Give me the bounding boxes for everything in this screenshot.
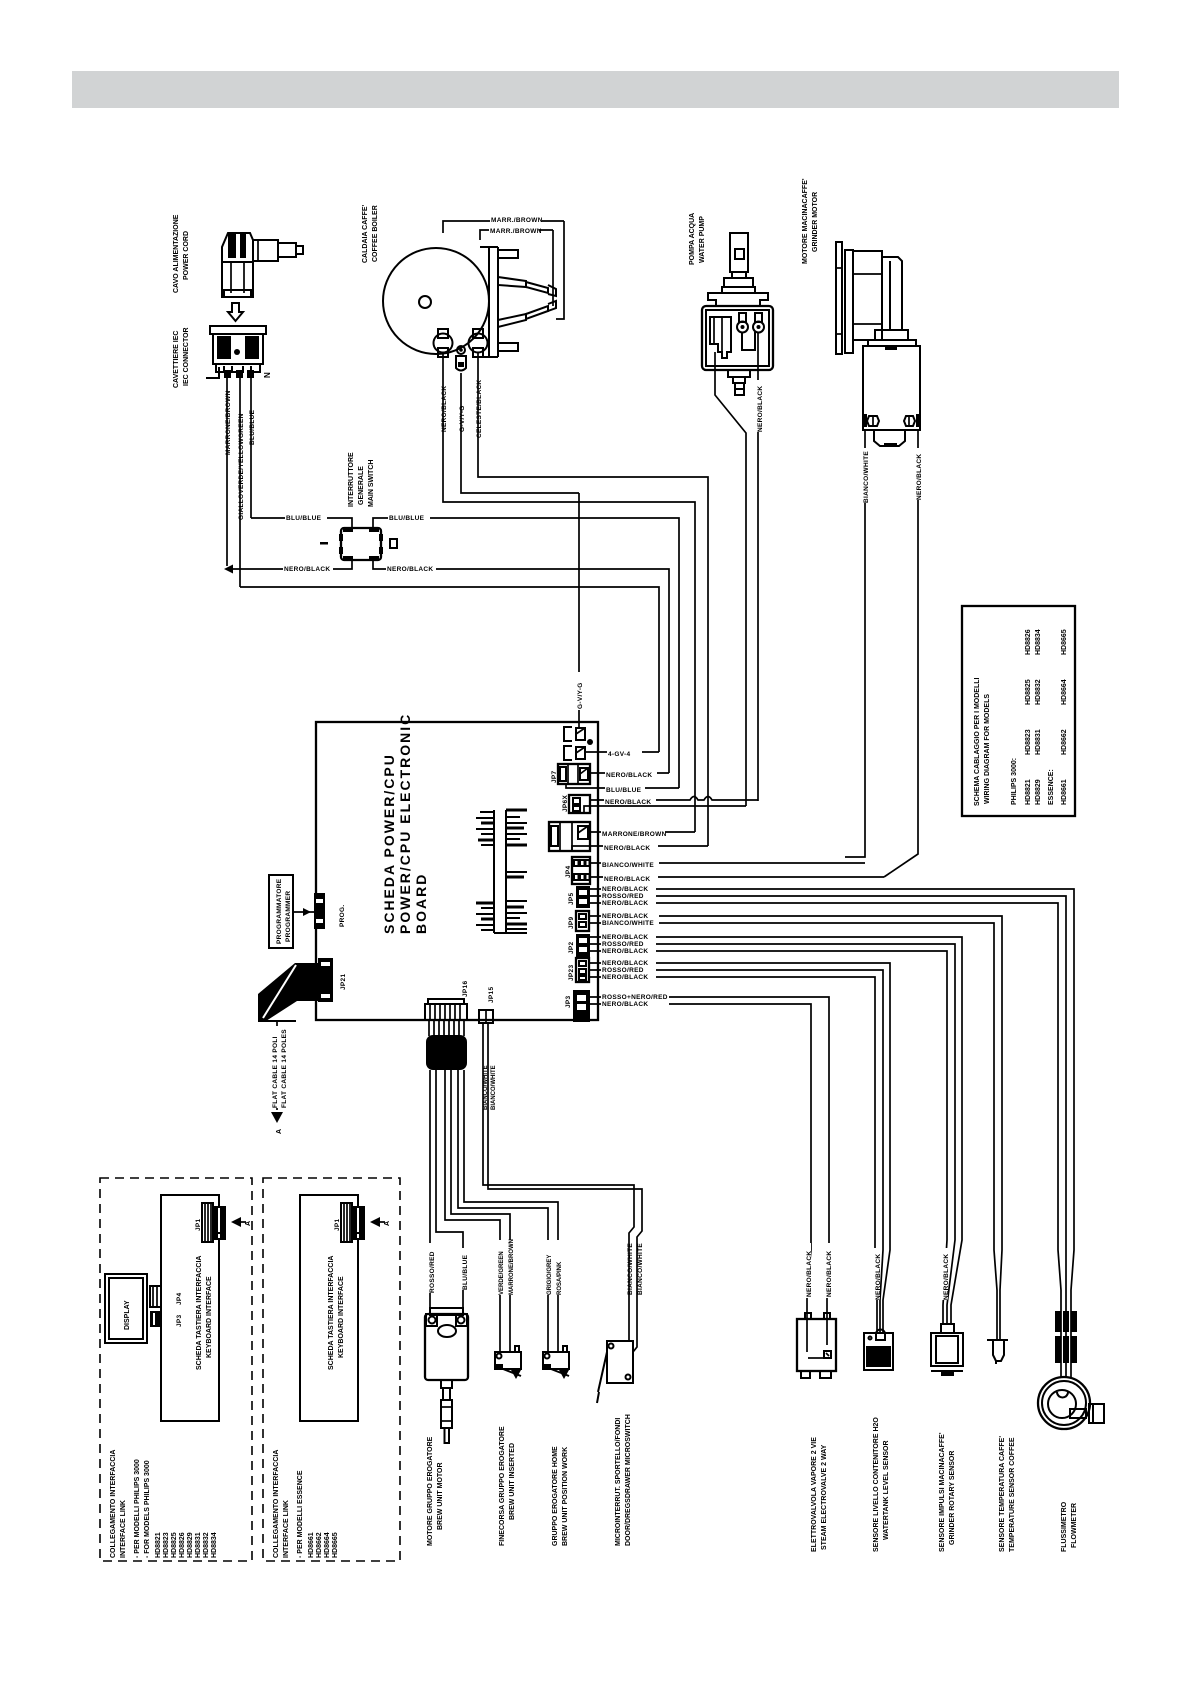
flowmeter wire label block 1 [1055,1311,1077,1332]
labels JP9 wires [601,911,659,929]
wire JP2b-2 [590,944,955,1324]
water level sensor B1 [864,1330,893,1371]
wire JP5-2 [590,896,1066,1378]
wire JP3-2 [590,1004,811,1319]
label MARR/BROWN top1 [490,214,542,222]
svg-text:BREW UNIT MOTOR: BREW UNIT MOTOR [437,1462,444,1530]
boiler small circle detail [419,296,431,308]
svg-text:GENERALE: GENERALE [358,466,365,505]
svg-text:NERO/BLACK: NERO/BLACK [284,566,330,573]
svg-text:DISPLAY: DISPLAY [124,1300,131,1330]
svg-text:BLU/BLUE: BLU/BLUE [462,1254,469,1290]
JP16 wire red to motor [429,1070,431,1314]
label G-V/Y-G vertical [572,672,580,710]
arrow junction [224,565,233,574]
wire boiler top 1 [443,221,564,233]
boiler mounting plate [480,247,518,357]
svg-text:NERO/BLACK: NERO/BLACK [602,886,648,893]
display connector JP4 [150,1311,161,1327]
dashed box Essence interface [263,1178,400,1561]
steam electrovalve EV1 [797,1313,836,1378]
svg-text:BIANCO/WHITE: BIANCO/WHITE [602,920,654,927]
wire programmer to PCB [293,911,316,913]
svg-text:MARRONE/BROWN: MARRONE/BROWN [225,390,232,455]
wire JP9-1 [590,916,1002,1339]
svg-text:NERO/BLACK: NERO/BLACK [806,1251,813,1297]
svg-text:MAIN SWITCH: MAIN SWITCH [368,460,375,507]
svg-text:HD8831: HD8831 [1035,729,1042,755]
flat cable wire down [276,1021,278,1110]
svg-text:SCHEDA TASTIERA INTERFACCIA: SCHEDA TASTIERA INTERFACCIA [328,1256,335,1370]
svg-text:SCHEDA TASTIERA INTERFACCIA: SCHEDA TASTIERA INTERFACCIA [196,1256,203,1370]
wire JP2a-2 [572,846,708,851]
arrow A down [271,1112,283,1123]
boiler terminal T2 [469,329,488,357]
labels JP3 wires [601,992,669,1010]
flat ribbon cable [258,963,318,1021]
svg-text:NERO/BLACK: NERO/BLACK [602,913,648,920]
svg-text:HD8832: HD8832 [1035,679,1042,705]
svg-text:FLAT CABLE 14 POLI: FLAT CABLE 14 POLI [272,1036,279,1108]
labels JP2b wires [601,932,656,957]
label FLAT CABLE 14 POLI [272,1026,281,1108]
svg-text:MARRONE/BROWN: MARRONE/BROWN [509,1239,515,1295]
svg-text:A: A [384,1221,391,1226]
grinder motor M2 [836,242,920,447]
svg-text:HD8665: HD8665 [332,1532,339,1558]
wire G-V into JP12 [578,722,580,728]
connector JP1 board2 [341,1203,365,1242]
labels JP23 wires [601,958,656,983]
svg-text:BLU/BLUE: BLU/BLUE [389,515,425,522]
svg-text:MICROINTERRUT. SPORTELLO/FONDI: MICROINTERRUT. SPORTELLO/FONDI [615,1418,622,1546]
svg-text:MARR./BROWN: MARR./BROWN [491,217,543,224]
svg-text:WIRING DIAGRAM FOR MODELS: WIRING DIAGRAM FOR MODELS [984,694,991,804]
svg-text:BREW UNIT POSITION WORK: BREW UNIT POSITION WORK [562,1447,569,1546]
svg-text:MOTORE MACINACAFFE': MOTORE MACINACAFFE' [802,178,809,264]
svg-text:PHILIPS 3000:: PHILIPS 3000: [1011,758,1018,805]
svg-text:HD8664: HD8664 [324,1532,331,1558]
wire JP6X-1 with hops [590,797,758,801]
arrow A board1 [231,1217,241,1227]
svg-text:BIANCO/WHITE: BIANCO/WHITE [627,1243,634,1295]
connector JP3 [573,990,590,1022]
svg-text:NERO/BLACK: NERO/BLACK [602,974,648,981]
svg-text:WATERTANK LEVEL SENSOR: WATERTANK LEVEL SENSOR [883,1440,890,1540]
svg-text:4-GV-4: 4-GV-4 [608,751,630,758]
svg-text:- PER MODELLI PHILIPS 3000: - PER MODELLI PHILIPS 3000 [134,1459,141,1558]
svg-text:NERO/BLACK: NERO/BLACK [441,386,448,432]
svg-text:SENSORE TEMPERATURA CAFFE': SENSORE TEMPERATURA CAFFE' [999,1436,1006,1552]
flowmeter wire label block 2 [1055,1336,1077,1363]
wire JP7-2 blue [566,784,679,788]
svg-text:ROSSO/RED: ROSSO/RED [429,1251,436,1293]
arrow A board2 [370,1217,380,1227]
svg-text:G-V/Y-G: G-V/Y-G [459,405,466,432]
svg-text:JP3: JP3 [565,995,572,1008]
svg-text:PROGRAMMATORE: PROGRAMMATORE [276,878,283,944]
brew unit motor M3 [425,1308,468,1443]
coffee boiler body [383,248,489,354]
svg-text:HD8832: HD8832 [203,1532,210,1558]
svg-text:CELESTE/BLACK: CELESTE/BLACK [476,380,483,438]
wire blue switch to JP7 [373,518,679,788]
display connector JP3 [150,1286,161,1307]
connector JP16 on PCB bottom [425,999,467,1020]
svg-text:PROG.: PROG. [339,905,346,927]
label BIANCO/WHITE grinder [858,448,866,503]
connector JP15 on PCB bottom [479,1010,493,1023]
svg-text:CALDAIA CAFFE': CALDAIA CAFFE' [362,204,369,263]
svg-text:SCHEDA POWER/CPU: SCHEDA POWER/CPU [381,753,397,934]
svg-text:CAVETTIERE IEC: CAVETTIERE IEC [173,331,180,388]
PCB trace comb graphic [476,810,527,933]
svg-text:JP1: JP1 [195,1218,202,1231]
svg-text:HD8834: HD8834 [1035,629,1042,655]
label ROSSO/RED [426,1243,434,1293]
svg-text:HD8662: HD8662 [1061,729,1068,755]
programmer box [269,875,293,948]
connector JP6X [569,795,590,813]
svg-text:NERO/BLACK: NERO/BLACK [604,876,650,883]
svg-text:A: A [245,1221,252,1226]
wire earth yellow-green from IEC [239,376,241,587]
svg-text:JP1: JP1 [334,1218,341,1231]
svg-text:HD8831: HD8831 [195,1532,202,1558]
svg-text:POWER CORD: POWER CORD [183,231,190,280]
dashed box Philips 3000 interface [100,1178,252,1561]
svg-text:JP4: JP4 [565,865,572,878]
svg-text:HD8664: HD8664 [1061,679,1068,705]
svg-text:KEYBOARD INTERFACE: KEYBOARD INTERFACE [338,1276,345,1358]
svg-text:NERO/BLACK: NERO/BLACK [943,1254,950,1300]
svg-text:SENSORE LIVELLO CONTENITORE H2: SENSORE LIVELLO CONTENITORE H2O [873,1417,880,1552]
microswitch MS3 door [597,1341,633,1403]
switch position mark O [390,539,397,548]
wire pump left [715,352,746,806]
svg-text:MARR./BROWN: MARR./BROWN [490,228,542,235]
wire JP23-1 [590,963,890,1333]
svg-text:HD8834: HD8834 [211,1532,218,1558]
models box [962,606,1075,816]
svg-text:BIANCO/WHITE: BIANCO/WHITE [491,1065,497,1110]
svg-text:HD8821: HD8821 [155,1532,162,1558]
JP16 wire blue to motor [436,1070,463,1314]
svg-text:ROSSO/RED: ROSSO/RED [602,893,644,900]
label NERO/BLACK left [283,563,333,571]
svg-text:PROGRAMMER: PROGRAMMER [285,891,292,942]
svg-text:GRINDER ROTARY SENSOR: GRINDER ROTARY SENSOR [949,1451,956,1545]
junction dot [587,739,593,745]
svg-text:JP16: JP16 [462,981,469,997]
main switch S1 [339,527,383,561]
svg-text:NERO/BLACK: NERO/BLACK [602,934,648,941]
svg-text:BIANCO/WHITE: BIANCO/WHITE [863,451,870,503]
grinder pulse sensor B2 [931,1324,963,1376]
JP16 wires to wrap [429,1020,464,1036]
keyboard interface board 1 [161,1195,219,1421]
boiler ground terminal [456,346,466,371]
svg-text:NERO/BLACK: NERO/BLACK [606,772,652,779]
wire L brown from IEC [226,376,228,566]
wire JP4-2 black [590,876,884,878]
svg-text:- PER MODELLI ESSENCE: - PER MODELLI ESSENCE [297,1470,304,1558]
connector JP9 [576,911,589,931]
svg-text:POMPA ACQUA: POMPA ACQUA [689,213,696,265]
svg-text:NERO/BLACK: NERO/BLACK [602,1001,648,1008]
svg-text:INTERFACE LINK: INTERFACE LINK [120,1500,127,1558]
svg-text:COFFEE BOILER: COFFEE BOILER [372,205,379,262]
connector JP21 [318,958,333,1002]
wire JP23-3 [590,977,877,1333]
svg-text:BREW UNIT INSERTED: BREW UNIT INSERTED [509,1443,516,1520]
connector JP12 bracket 2 [564,746,572,760]
svg-text:MARRONE/BROWN: MARRONE/BROWN [602,831,667,838]
svg-text:JP2: JP2 [568,941,575,954]
microswitch MS1 [495,1346,521,1379]
svg-text:HD8662: HD8662 [316,1532,323,1558]
svg-text:BLU/BLUE: BLU/BLUE [286,515,322,522]
svg-text:MOTORE GRUPPO EROGATORE: MOTORE GRUPPO EROGATORE [427,1436,434,1546]
power cord plug P1 [222,233,303,297]
svg-text:ROSSO+NERO/RED: ROSSO+NERO/RED [602,994,668,1001]
wire JP6X-2 [584,806,746,813]
wire earth tab to column [585,751,659,753]
wire grinder white [845,430,865,857]
wire black switch to JP7 [373,560,669,773]
connector JP2b [576,934,590,957]
wire boiler black [443,353,695,832]
svg-text:JP23: JP23 [568,965,575,981]
svg-text:HD8829: HD8829 [1035,779,1042,805]
svg-text:BOARD: BOARD [413,873,429,934]
label NERO/BLACK pump [752,380,760,432]
labels ms2 wires [544,1240,551,1295]
wire pump right [757,333,759,801]
svg-text:GRIGIO/GREY: GRIGIO/GREY [547,1255,553,1295]
wire grinder black [884,430,918,877]
wire earth long run [240,587,659,752]
label NERO/BLACK right [386,563,436,571]
svg-text:NERO/BLACK: NERO/BLACK [605,799,651,806]
svg-text:SCHEMA CABLAGGIO PER I MODELLI: SCHEMA CABLAGGIO PER I MODELLI [974,677,981,806]
svg-text:CAVO ALIMENTAZIONE: CAVO ALIMENTAZIONE [173,214,180,293]
label BLU/BLUE right [388,512,430,520]
svg-text:HD8823: HD8823 [163,1532,170,1558]
labels electrovalve wires [803,1243,811,1298]
label BLU/BLUE [459,1248,467,1290]
header gray bar [72,71,1119,108]
wire JP23-2 [590,970,883,1333]
wire wrap blob [426,1035,467,1070]
JP15 wire 1 [483,1023,634,1341]
svg-text:FLAT CABLE 14 POLES: FLAT CABLE 14 POLES [281,1029,288,1108]
svg-text:JP5: JP5 [568,892,575,905]
svg-text:HD8825: HD8825 [171,1532,178,1558]
svg-text:NERO/BLACK: NERO/BLACK [875,1254,882,1300]
svg-text:FLOWMETER: FLOWMETER [1071,1503,1078,1548]
svg-text:SENSORE IMPULSI MACINACAFFE': SENSORE IMPULSI MACINACAFFE' [939,1432,946,1552]
boiler heating element electrodes [498,277,556,327]
svg-text:BIANCO/WHITE: BIANCO/WHITE [602,862,654,869]
JP16 wires to microswitch2 [458,1070,548,1352]
svg-text:JP7: JP7 [551,770,558,783]
wire yellow-green drop to JP12 [578,493,580,722]
svg-text:NERO/BLACK: NERO/BLACK [757,386,764,432]
svg-text:HD8661: HD8661 [308,1532,315,1558]
svg-text:NERO/BLACK: NERO/BLACK [602,900,648,907]
svg-text:JP3: JP3 [176,1314,183,1327]
wire JP2a-1 brown [590,831,695,833]
svg-text:ROSA/PINK: ROSA/PINK [557,1261,563,1295]
svg-text:NERO/BLACK: NERO/BLACK [602,960,648,967]
svg-text:JP9: JP9 [568,916,575,929]
svg-text:HD8661: HD8661 [1061,779,1068,805]
connector JP23 [576,958,589,982]
JP15 wire 2 [488,1023,642,1352]
JP16 wires to microswitch1 [445,1070,500,1352]
svg-text:NERO/BLACK: NERO/BLACK [602,948,648,955]
svg-text:NERO/BLACK: NERO/BLACK [916,454,923,500]
wire JP4-1 white [590,862,865,864]
wire JP5-3 [590,903,1061,1378]
wire JP5-1 [590,889,1074,1378]
svg-text:HD8823: HD8823 [1025,729,1032,755]
svg-text:TEMPERATURE SENSOR COFFEE: TEMPERATURE SENSOR COFFEE [1009,1437,1016,1552]
svg-text:HD8665: HD8665 [1061,629,1068,655]
connector JP5 [576,886,590,908]
svg-text:ELETTROVALVOLA VAPORE 2 VIE: ELETTROVALVOLA VAPORE 2 VIE [811,1437,818,1552]
wire blue IEC to switch [251,518,352,528]
label grinder sensor wire [940,1248,948,1300]
svg-text:JP21: JP21 [340,974,347,990]
svg-text:HD8826: HD8826 [179,1532,186,1558]
wire boiler top 2 [480,230,553,240]
wire JP9-2 [590,923,997,1339]
connector JP7 [558,764,590,784]
svg-text:BLU/BLUE: BLU/BLUE [249,409,256,445]
svg-text:VERDE/GREEN: VERDE/GREEN [499,1251,505,1295]
labels ms1 wires [496,1240,503,1295]
svg-text:WATER PUMP: WATER PUMP [699,216,706,263]
svg-text:STEAM ELECTROVALVE 2 WAY: STEAM ELECTROVALVE 2 WAY [821,1444,828,1550]
label water sensor wire [872,1248,880,1300]
wire JP7-1 black [590,772,669,774]
connector PROG on PCB edge [314,893,325,929]
wire boiler yellow-green [461,373,579,493]
boiler terminal T1 [434,329,453,357]
svg-text:HD8829: HD8829 [187,1532,194,1558]
svg-text:GRINDER MOTOR: GRINDER MOTOR [812,192,819,252]
svg-text:BLU/BLUE: BLU/BLUE [606,787,642,794]
wire brown IEC to switch with arrow [230,560,352,569]
svg-text:NERO/BLACK: NERO/BLACK [826,1251,833,1297]
svg-text:- FOR MODELS PHILIPS 3000: - FOR MODELS PHILIPS 3000 [144,1460,151,1558]
svg-text:COLLEGAMENTO INTERFACCIA: COLLEGAMENTO INTERFACCIA [110,1450,117,1558]
labels JP5 wires [601,884,656,909]
water pump M1 [702,233,773,395]
connector JP4 [572,857,590,884]
connector JP12 bracket 1 [564,727,572,741]
svg-text:GIALLOVERDE/YELLOWGREEN: GIALLOVERDE/YELLOWGREEN [238,413,245,520]
svg-text:IEC CONNECTOR: IEC CONNECTOR [183,327,190,386]
pin label L [206,367,219,378]
wire boiler blue [478,353,708,846]
arrow plug-to-connector [228,303,243,321]
keyboard interface board 2 [300,1195,358,1421]
svg-text:A: A [276,1129,283,1134]
svg-text:FINECORSA GRUPPO EROGATORE: FINECORSA GRUPPO EROGATORE [499,1426,506,1546]
connector JP2a [549,822,590,851]
temperature sensor B3 [987,1340,1008,1364]
label MARR/BROWN top2 [489,225,539,233]
svg-text:COLLEGAMENTO INTERFACCIA: COLLEGAMENTO INTERFACCIA [273,1450,280,1558]
svg-text:HD8825: HD8825 [1025,679,1032,705]
PCB power board outline [316,722,598,1020]
svg-text:NERO/BLACK: NERO/BLACK [604,845,650,852]
svg-text:JP6X: JP6X [562,795,569,812]
svg-text:INTERFACE LINK: INTERFACE LINK [283,1500,290,1558]
svg-text:G-V/Y-G: G-V/Y-G [577,682,584,709]
svg-text:ROSSO/RED: ROSSO/RED [602,941,644,948]
svg-text:JP4: JP4 [176,1292,183,1305]
svg-text:ROSSO/RED: ROSSO/RED [602,967,644,974]
boiler thermostat bracket outer [556,221,564,319]
label NERO/BLACK grinder [911,448,919,500]
svg-text:KEYBOARD INTERFACE: KEYBOARD INTERFACE [206,1276,213,1358]
flowmeter FM1 [1038,1377,1104,1429]
svg-text:FLUSSIMETRO: FLUSSIMETRO [1061,1501,1068,1552]
connector JP1 board1 [202,1203,226,1242]
svg-text:DOOR/DREGSDRAWER MICROSWITCH: DOOR/DREGSDRAWER MICROSWITCH [625,1414,632,1546]
svg-text:JP15: JP15 [488,987,495,1003]
boiler thermostat bracket inner [552,230,554,306]
display box [105,1274,147,1343]
label BLU/BLUE left [285,512,327,520]
svg-text:HD8821: HD8821 [1025,779,1032,805]
svg-text:GRUPPO EROGATORE HOME: GRUPPO EROGATORE HOME [552,1446,559,1546]
svg-text:BIANCO/WHITE: BIANCO/WHITE [637,1243,644,1295]
svg-text:NERO/BLACK: NERO/BLACK [387,566,433,573]
wire N blue from IEC [250,376,252,518]
svg-text:INTERRUTTORE: INTERRUTTORE [348,452,355,507]
wire JP2b-3 [590,951,947,1324]
microswitch MS2 [543,1346,569,1379]
svg-text:ESSENCE:: ESSENCE: [1048,769,1055,805]
svg-text:N: N [263,372,272,378]
switch position mark I [320,542,328,545]
IEC connector X1 [210,326,266,378]
wire JP2b-1 [590,937,962,1324]
wire JP3-1 [590,997,829,1319]
svg-text:HD8826: HD8826 [1025,629,1032,655]
svg-text:POWER/CPU ELECTRONIC: POWER/CPU ELECTRONIC [397,713,413,934]
